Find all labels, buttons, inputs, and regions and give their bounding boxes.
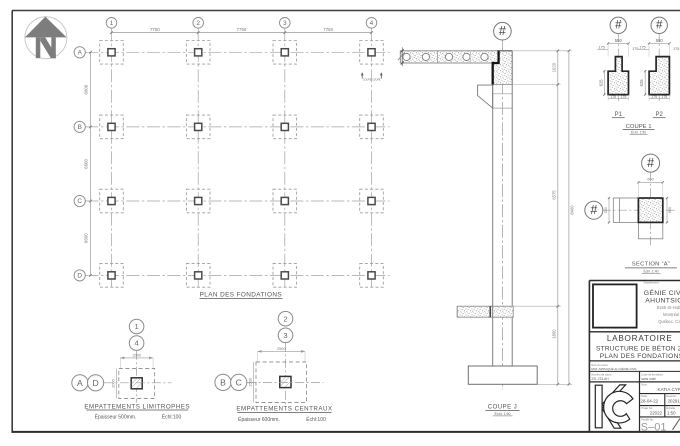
svg-text:P2: P2	[656, 112, 664, 118]
svg-text:6600: 6600	[84, 233, 89, 243]
svg-text:7750: 7750	[150, 27, 160, 32]
svg-text:COUPE J: COUPE J	[488, 405, 518, 411]
svg-text:9155 St-Hubert: 9155 St-Hubert	[657, 305, 680, 310]
svg-text:STRUCTURE DE BÉTON 21: STRUCTURE DE BÉTON 21	[596, 343, 680, 352]
svg-text:7750: 7750	[237, 27, 247, 32]
svg-text:550: 550	[615, 38, 623, 43]
svg-text:COUPE 1: COUPE 1	[626, 124, 652, 130]
svg-text:600: 600	[668, 207, 672, 213]
svg-text:2: 2	[283, 314, 287, 323]
svg-text:1: 1	[110, 20, 114, 27]
svg-text:#: #	[590, 203, 597, 217]
svg-text:#: #	[656, 20, 663, 32]
svg-text:COUPE COUPE: COUPE COUPE	[363, 79, 381, 82]
svg-text:Épaisseur 500mm.: Épaisseur 500mm.	[95, 413, 137, 420]
svg-text:2500: 2500	[277, 347, 285, 351]
svg-text:Échl. 1:50: Échl. 1:50	[631, 130, 646, 135]
svg-text:PLAN DES FONDATIONS: PLAN DES FONDATIONS	[600, 353, 680, 360]
svg-text:Échl. 1:50: Échl. 1:50	[495, 411, 511, 416]
svg-text:EMPATTEMENTS LIMITROPHES: EMPATTEMENTS LIMITROPHES	[84, 403, 190, 410]
svg-text:A: A	[77, 378, 83, 388]
svg-text:1: 1	[134, 322, 138, 331]
svg-text:6575: 6575	[552, 190, 557, 200]
svg-text:C: C	[77, 198, 82, 205]
svg-text:GÉNIE CIVIL: GÉNIE CIVIL	[644, 288, 680, 297]
svg-text:4: 4	[370, 20, 374, 27]
svg-text:KATIA CYR: KATIA CYR	[658, 387, 680, 392]
svg-text:C: C	[236, 377, 242, 387]
svg-text:A: A	[78, 50, 83, 57]
svg-text:S–01: S–01	[641, 421, 667, 433]
svg-text:175: 175	[639, 45, 645, 49]
svg-text:Dessiné:: Dessiné:	[666, 394, 676, 398]
svg-text:2000: 2000	[132, 353, 140, 357]
svg-text:3: 3	[283, 331, 287, 340]
svg-text:MAT. APPLIQUÉ AU GÉNIE CIVIL: MAT. APPLIQUÉ AU GÉNIE CIVIL	[591, 366, 637, 371]
svg-text:175: 175	[673, 47, 679, 51]
svg-text:Montréal: Montréal	[663, 312, 679, 317]
svg-text:Département:: Département:	[644, 281, 660, 285]
svg-text:175: 175	[661, 95, 667, 99]
svg-text:#: #	[647, 156, 654, 170]
svg-text:sans code: sans code	[641, 377, 656, 381]
svg-text:6600: 6600	[84, 84, 89, 94]
svg-text:Échl. 1:40: Échl. 1:40	[643, 269, 658, 274]
svg-text:Numéro de cours:: Numéro de cours:	[591, 372, 612, 376]
svg-text:#: #	[499, 24, 506, 38]
svg-text:3: 3	[283, 20, 287, 27]
svg-text:1020: 1020	[552, 62, 557, 72]
svg-text:550: 550	[604, 207, 608, 213]
svg-text:28-04-22: 28-04-22	[641, 399, 659, 404]
svg-text:Échl:100: Échl:100	[162, 413, 182, 420]
svg-text:P1: P1	[615, 112, 623, 118]
svg-text:SECTION “A”: SECTION “A”	[632, 262, 670, 268]
svg-text:Québec, Canada: Québec, Canada	[658, 319, 680, 324]
svg-text:625: 625	[598, 79, 603, 87]
svg-text:6600: 6600	[84, 159, 89, 169]
svg-text:D: D	[77, 273, 82, 280]
svg-text:4: 4	[134, 339, 138, 348]
svg-text:#: #	[615, 20, 622, 32]
svg-text:Code de formation:: Code de formation:	[641, 372, 663, 376]
svg-text:221-723-AH: 221-723-AH	[591, 377, 609, 381]
svg-text:7750: 7750	[323, 27, 333, 32]
svg-text:1800: 1800	[552, 329, 557, 339]
svg-text:EMPATTEMENTS CENTRAUX: EMPATTEMENTS CENTRAUX	[236, 406, 332, 413]
svg-text:20291: 20291	[668, 399, 680, 404]
svg-text:550: 550	[656, 38, 664, 43]
svg-text:Date:: Date:	[641, 394, 647, 398]
svg-text:2000: 2000	[112, 379, 116, 387]
svg-text:600: 600	[647, 178, 653, 182]
svg-text:B: B	[220, 377, 226, 387]
svg-text:LABORATOIRE: LABORATOIRE	[607, 334, 673, 343]
svg-text:22022: 22022	[650, 410, 663, 415]
svg-text:175: 175	[632, 47, 638, 51]
svg-text:175: 175	[610, 95, 616, 99]
svg-text:2: 2	[196, 20, 200, 27]
svg-text:D: D	[92, 378, 98, 388]
svg-text:175: 175	[651, 95, 657, 99]
svg-text:8400: 8400	[569, 205, 574, 215]
svg-text:1:50: 1:50	[667, 410, 676, 415]
svg-text:Nom:: Nom:	[641, 383, 647, 387]
svg-text:Échl:100: Échl:100	[306, 416, 326, 423]
svg-text:175: 175	[599, 45, 605, 49]
svg-text:PLAN DES FONDATIONS: PLAN DES FONDATIONS	[200, 291, 282, 298]
svg-text:B: B	[78, 124, 82, 131]
svg-text:625: 625	[639, 79, 644, 87]
svg-text:175: 175	[620, 95, 626, 99]
svg-text:Épaisseur 600mm.: Épaisseur 600mm.	[238, 416, 280, 423]
svg-text:AHUNTSIC: AHUNTSIC	[645, 298, 680, 305]
